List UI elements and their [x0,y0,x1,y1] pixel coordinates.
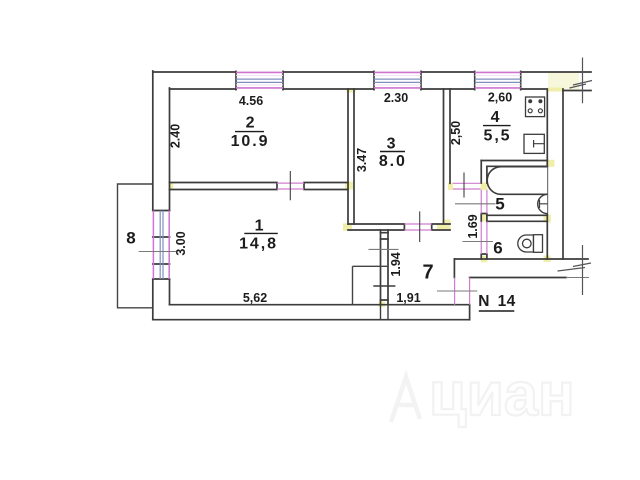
bathroom top wall [481,161,547,167]
flat number underline [479,310,515,312]
break symbol top right [570,58,593,104]
balcony outline [118,184,153,308]
svg-text:2.40: 2.40 [169,124,183,148]
leader room5 [455,203,496,205]
window room2 magenta [236,72,283,88]
top window caps [236,71,521,89]
leader 3.00 [139,251,176,253]
bottom wall inner [170,304,470,306]
svg-text:3.47: 3.47 [355,148,369,172]
yellow junction partition1-2 left [169,182,174,191]
entrance wall chunk [454,259,566,278]
yellow junction wall5-6 right [544,215,552,223]
kitchen sink [524,134,544,153]
svg-text:2,50: 2,50 [449,121,463,145]
room2 fraction line [235,131,264,133]
bathtub [487,167,547,195]
door kitchen swing tick [463,173,465,198]
right wall outer [563,89,588,259]
partition rooms 2-3 [348,89,354,224]
yellow junction lobby door left [448,183,453,191]
yellow junction closet bottom [379,302,386,308]
svg-text:5,62: 5,62 [243,291,267,305]
bottom wall right cap [469,305,471,320]
balcony window caps and dividers [153,211,170,280]
svg-text:циан: циан [429,360,575,428]
yellow junction room3 bottom wall left [343,223,352,231]
right wall inner [546,91,548,260]
door room3 [404,224,431,230]
door room1-room2 swing tick [289,171,291,200]
window room3 blue panes [374,79,421,82]
yellow junction partition2-3 top [347,88,356,93]
svg-text:14,8: 14,8 [239,236,278,253]
window room2 pink inner [236,76,283,85]
entrance door [455,278,470,305]
svg-text:3: 3 [387,136,398,153]
wall rooms 3-4 [444,89,451,224]
leader 1.69 room6 [463,241,494,243]
window room2 blue panes [236,79,283,82]
balcony window blue panes [160,211,163,280]
svg-text:5,5: 5,5 [484,128,512,145]
kitchen-bath separator wall [481,161,487,184]
yellow junction wall3-4 bottom [443,220,451,231]
leader 1.94 [369,248,399,250]
svg-text:6: 6 [493,239,502,258]
yellow wall fill right of kitchen [548,73,579,90]
yellow junction top wall right [548,88,563,92]
toilet circle [523,239,532,248]
svg-text:1.69: 1.69 [466,214,480,238]
washbasin [538,194,548,213]
yellow junction wc bottom left [481,256,488,262]
yellow junction partition1-2 right [345,182,353,190]
toilet bowl [518,235,534,252]
room1 fraction line [244,232,277,234]
svg-text:1,91: 1,91 [396,291,420,305]
wall rooms 5-6 [487,215,547,221]
svg-text:1.94: 1.94 [389,252,403,276]
kitchen sink tap [534,140,545,148]
svg-text:8: 8 [126,229,135,248]
svg-text:10.9: 10.9 [231,133,270,150]
bath wc left wall stubs [481,214,487,260]
window kitchen pink inner [475,76,521,85]
svg-text:2: 2 [246,115,257,132]
svg-text:8.0: 8.0 [379,153,407,170]
svg-text:7: 7 [422,262,433,284]
svg-text:2,60: 2,60 [488,91,512,105]
svg-text:5: 5 [495,195,504,214]
svg-text:N: N [478,293,489,310]
thin lines: balcony and closet [118,184,389,308]
yellow junction wc bottom right [544,256,551,263]
entrance door tick [437,278,589,292]
door bathroom5 [481,190,487,214]
top wall outer line [153,71,591,73]
balcony window magenta [153,211,169,280]
svg-text:4: 4 [491,109,502,126]
window kitchen magenta [475,72,521,88]
yellow junction bath top wall right [546,160,555,167]
wc bottom wall [454,258,563,260]
window kitchen blue panes [475,79,521,82]
door room3 swing tick [419,211,421,242]
break symbol bottom right [558,245,592,295]
stove burners open [528,109,532,113]
stove [526,97,545,117]
svg-text:14: 14 [498,293,516,310]
washbasin tap [540,200,548,208]
left wall inner [169,88,171,305]
closet outline [353,266,389,304]
room3 bottom wall [348,224,450,230]
svg-text:4.56: 4.56 [239,94,263,108]
watermark logo [391,377,420,422]
bottom wall outer [153,319,470,321]
room3 fraction line [380,151,405,153]
partition rooms 1-7 [381,230,389,305]
door wc6 [481,222,487,255]
svg-text:1: 1 [255,218,266,235]
toilet tank [534,235,543,253]
partition 1-7 wide tick [374,285,395,287]
partition 1-7 ticks [381,233,389,300]
window room3 pink inner [374,76,421,85]
yellow junction lobby door right [481,183,488,191]
partition channel through bottom wall [381,305,389,320]
room4 fraction line [483,125,511,127]
top wall inner line [170,89,592,91]
door kitchen (lobby) [453,183,481,189]
yellow junction room3 bottom wall right [437,224,449,231]
svg-text:2.30: 2.30 [384,91,408,105]
partition rooms 1-2 [170,183,349,190]
window room3 magenta [374,72,421,88]
left wall outer [152,71,154,320]
svg-text:3.00: 3.00 [174,231,188,255]
door room1-room2 [277,183,304,189]
stove burners filled [528,99,532,103]
yellow fill stub between bath and wc doors [481,215,486,222]
